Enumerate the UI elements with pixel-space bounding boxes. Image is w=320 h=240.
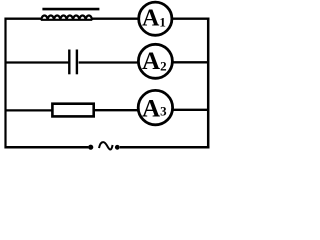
resistor R1 box [52, 104, 93, 117]
wire right vertical side [207, 18, 210, 149]
inductor L1 coil [41, 15, 92, 20]
AC source sine symbol [99, 142, 113, 149]
ammeter A3 circle [138, 90, 172, 124]
wire bottom: AC source to bottom-right corner [120, 146, 210, 149]
wire row2: A2 to right side [173, 61, 208, 63]
AC source left terminal dot [88, 145, 93, 150]
wire row3: left side to resistor [5, 109, 53, 111]
capacitor C1 right plate [76, 50, 78, 75]
wire top: inductor baseline [41, 19, 92, 21]
wire row3: A3 to right side [173, 109, 208, 111]
ammeter A1 circle [139, 2, 172, 35]
wire top: left corner to inductor [5, 18, 43, 20]
wire bottom: left corner to AC source [5, 146, 89, 149]
inductor L1 iron core bar [42, 8, 99, 11]
wire top: inductor to ammeter A1 [92, 18, 139, 20]
AC source right terminal dot [115, 145, 120, 150]
ammeter A2 circle [138, 44, 172, 78]
wire top: A1 to top-right corner [173, 18, 210, 20]
capacitor C1 left plate [68, 50, 70, 75]
wire row3: resistor to ammeter A3 [95, 109, 139, 111]
wire left vertical side [4, 18, 6, 149]
wire row2: left side to capacitor [5, 61, 69, 63]
wire row2: capacitor to ammeter A2 [79, 61, 138, 63]
